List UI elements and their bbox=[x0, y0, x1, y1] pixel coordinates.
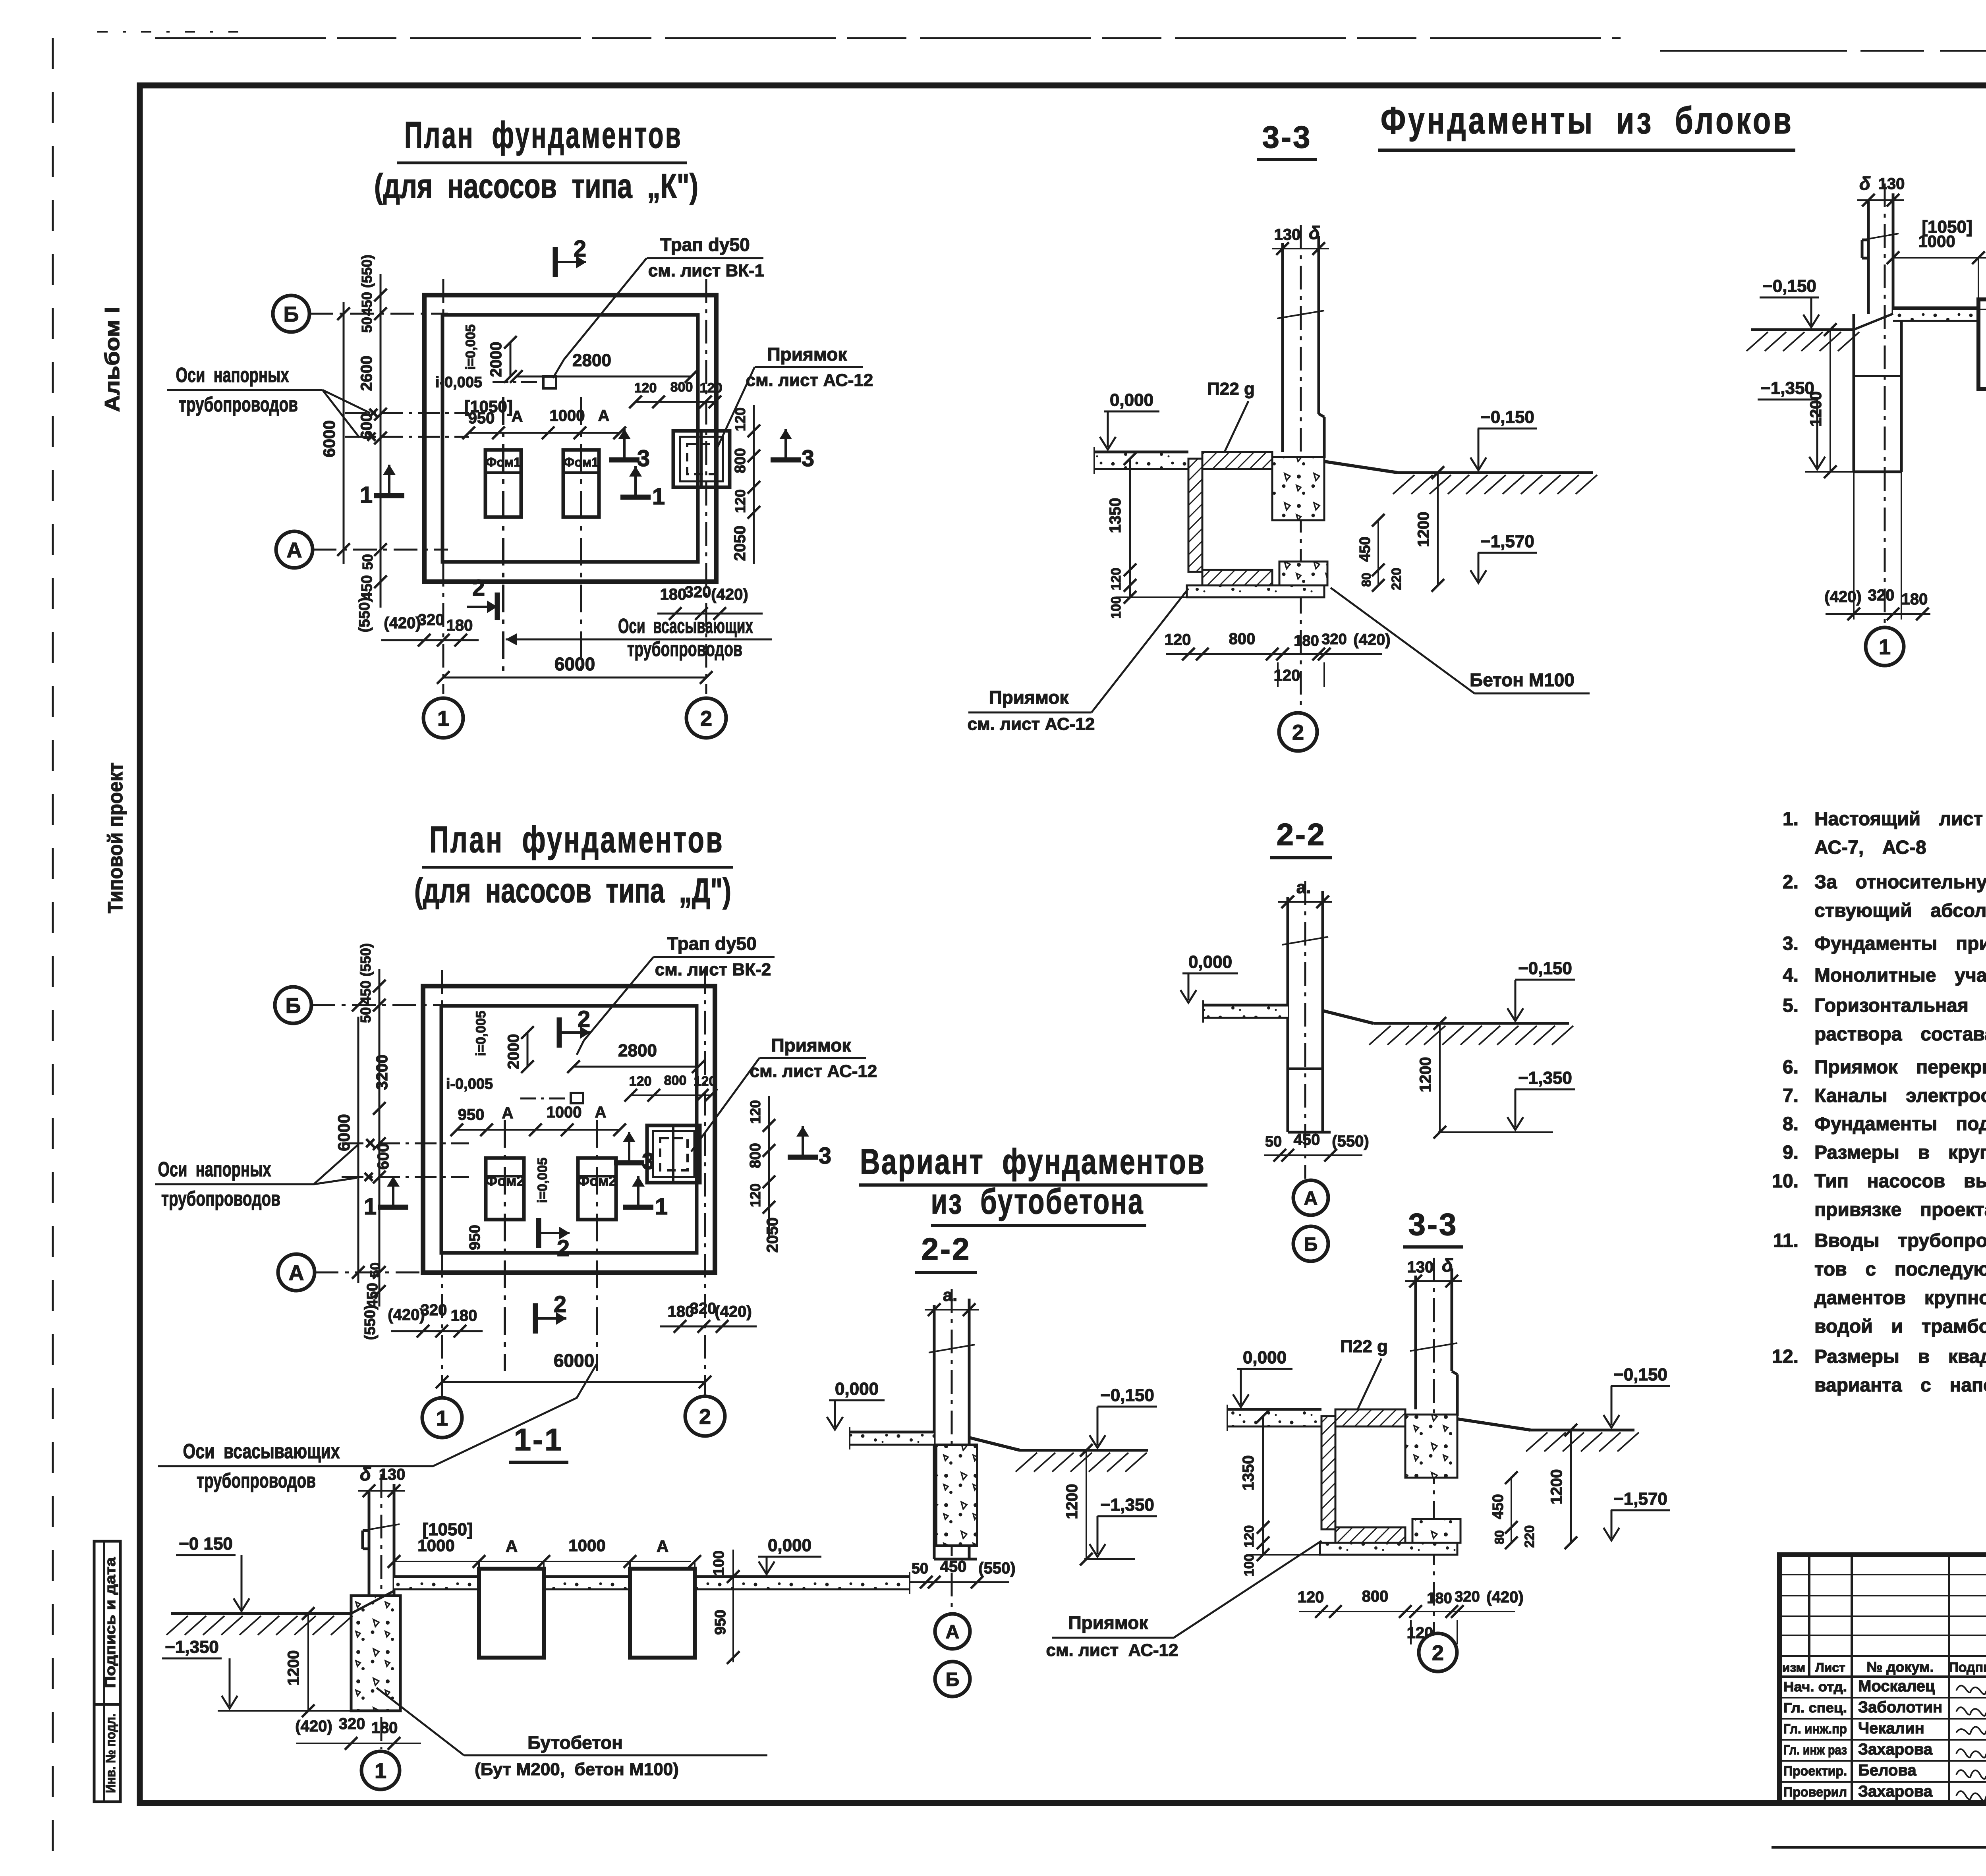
svg-text:1350: 1350 bbox=[1240, 1455, 1257, 1491]
svg-text:Вариант фундаментов: Вариант фундаментов bbox=[860, 1142, 1206, 1182]
svg-text:−1,350: −1,350 bbox=[1760, 378, 1814, 398]
svg-text:даментов крупнозернистым пес: даментов крупнозернистым песком слоями 1… bbox=[1814, 1287, 1986, 1309]
svg-text:Подпись и дата: Подпись и дата bbox=[102, 1557, 118, 1688]
svg-text:2-2: 2-2 bbox=[1277, 817, 1326, 852]
svg-text:Оси напорных: Оси напорных bbox=[158, 1158, 271, 1181]
svg-text:120: 120 bbox=[1242, 1525, 1257, 1548]
svg-text:800: 800 bbox=[747, 1143, 764, 1168]
svg-text:(420): (420) bbox=[715, 1303, 752, 1320]
svg-text:320: 320 bbox=[685, 583, 711, 601]
svg-text:А: А bbox=[502, 1104, 514, 1122]
svg-text:Белова: Белова bbox=[1858, 1762, 1916, 1779]
svg-text:100: 100 bbox=[1109, 596, 1124, 619]
svg-text:П22 g: П22 g bbox=[1207, 379, 1255, 399]
svg-text:3: 3 bbox=[819, 1143, 831, 1169]
svg-text:320: 320 bbox=[1868, 587, 1895, 604]
svg-text:Вводы трубопроводов закладыв: Вводы трубопроводов закладываются до уст… bbox=[1814, 1230, 1986, 1251]
svg-text:Приямок: Приямок bbox=[989, 687, 1069, 708]
svg-text:1-1: 1-1 bbox=[514, 1422, 564, 1457]
svg-text:δ: δ bbox=[1309, 222, 1320, 243]
svg-text:Альбом I: Альбом I bbox=[101, 307, 124, 412]
svg-text:1: 1 bbox=[375, 1759, 386, 1783]
svg-text:120: 120 bbox=[1298, 1588, 1324, 1606]
svg-text:2: 2 bbox=[574, 236, 586, 262]
svg-text:Захарова: Захарова bbox=[1858, 1741, 1933, 1758]
svg-text:6000: 6000 bbox=[554, 1350, 594, 1371]
svg-text:Настоящий лист рассматривать: Настоящий лист рассматривать совместно с… bbox=[1814, 809, 1986, 830]
svg-text:2800: 2800 bbox=[618, 1041, 657, 1060]
svg-text:2000: 2000 bbox=[487, 342, 505, 377]
svg-text:800: 800 bbox=[1229, 630, 1256, 648]
svg-text:см. лист АС-12: см. лист АС-12 bbox=[750, 1062, 877, 1081]
svg-text:2.: 2. bbox=[1783, 872, 1799, 893]
svg-text:130: 130 bbox=[1407, 1258, 1434, 1276]
svg-text:−0,150: −0,150 bbox=[1480, 407, 1534, 427]
svg-text:(420): (420) bbox=[384, 614, 421, 632]
svg-text:450 (550): 450 (550) bbox=[357, 943, 374, 1004]
svg-text:120: 120 bbox=[700, 380, 723, 396]
svg-text:(550): (550) bbox=[978, 1559, 1015, 1577]
svg-text:180: 180 bbox=[451, 1307, 477, 1324]
svg-text:450: 450 bbox=[1357, 537, 1374, 562]
svg-text:2000: 2000 bbox=[505, 1034, 522, 1069]
svg-text:трубопроводов: трубопроводов bbox=[627, 638, 742, 661]
svg-text:1000: 1000 bbox=[547, 1104, 582, 1121]
svg-text:120: 120 bbox=[747, 1183, 763, 1207]
svg-text:1: 1 bbox=[364, 1194, 377, 1220]
svg-text:изм: изм bbox=[1782, 1660, 1805, 1675]
svg-text:9.: 9. bbox=[1783, 1142, 1799, 1163]
svg-text:Инв. № подл.: Инв. № подл. bbox=[103, 1714, 118, 1793]
svg-text:Фундаменты под оборудование: Фундаменты под оборудование Фом 1, Фом 2… bbox=[1814, 1114, 1986, 1135]
svg-text:a.: a. bbox=[943, 1285, 958, 1305]
svg-text:i=0,005: i=0,005 bbox=[463, 324, 478, 370]
svg-text:см. лист АС-12: см. лист АС-12 bbox=[746, 371, 873, 390]
svg-text:А: А bbox=[506, 1537, 518, 1556]
svg-text:(420): (420) bbox=[388, 1306, 425, 1324]
svg-text:А: А bbox=[1304, 1188, 1318, 1209]
svg-text:320: 320 bbox=[1321, 631, 1347, 648]
svg-text:Бетон М100: Бетон М100 bbox=[1470, 670, 1575, 690]
svg-text:1200: 1200 bbox=[1807, 392, 1825, 427]
svg-text:2-2: 2-2 bbox=[922, 1231, 971, 1266]
svg-text:3: 3 bbox=[642, 1148, 655, 1174]
svg-text:водой и трамбованием.: водой и трамбованием. bbox=[1814, 1316, 1986, 1337]
svg-text:50: 50 bbox=[357, 1007, 374, 1023]
svg-text:Приямок перекрывается железо: Приямок перекрывается железобетонными пл… bbox=[1814, 1057, 1986, 1078]
svg-text:0,000: 0,000 bbox=[768, 1536, 811, 1555]
svg-text:950: 950 bbox=[467, 1225, 483, 1250]
svg-text:1200: 1200 bbox=[1415, 512, 1432, 547]
svg-text:0,000: 0,000 bbox=[835, 1379, 879, 1399]
svg-text:Подпись: Подпись bbox=[1949, 1660, 1986, 1675]
svg-text:тов с последующей засыпкой: тов с последующей засыпкой траншей до ур… bbox=[1814, 1259, 1986, 1280]
svg-text:1000: 1000 bbox=[550, 407, 585, 425]
svg-text:δ: δ bbox=[1859, 173, 1871, 194]
svg-text:За относительную отметку 0,: За относительную отметку 0,000 принят ур… bbox=[1814, 872, 1986, 893]
svg-text:80: 80 bbox=[1492, 1530, 1507, 1544]
svg-text:Захарова: Захарова bbox=[1858, 1783, 1933, 1800]
svg-text:−1,350: −1,350 bbox=[1518, 1068, 1572, 1088]
svg-text:Б: Б bbox=[286, 994, 301, 1017]
svg-text:Проектир.: Проектир. bbox=[1783, 1764, 1847, 1779]
svg-text:130: 130 bbox=[379, 1466, 406, 1483]
svg-text:1: 1 bbox=[436, 1406, 448, 1430]
svg-text:Б: Б bbox=[284, 302, 299, 326]
svg-text:950: 950 bbox=[468, 409, 495, 427]
svg-text:трубопроводов: трубопроводов bbox=[197, 1469, 316, 1492]
svg-text:2: 2 bbox=[1292, 720, 1304, 744]
svg-text:7.: 7. bbox=[1783, 1085, 1799, 1106]
svg-text:Приямок: Приямок bbox=[771, 1035, 852, 1056]
svg-text:Гл. спец.: Гл. спец. bbox=[1783, 1700, 1847, 1716]
svg-text:2: 2 bbox=[1432, 1641, 1444, 1665]
svg-text:0,000: 0,000 bbox=[1188, 952, 1232, 972]
svg-text:(420): (420) bbox=[1824, 588, 1861, 606]
svg-text:Оси всасывающих: Оси всасывающих bbox=[183, 1440, 340, 1463]
svg-text:Каналы электрооборудования с: Каналы электрооборудования см. лист АС-6… bbox=[1814, 1085, 1986, 1106]
svg-text:220: 220 bbox=[1522, 1525, 1537, 1548]
svg-text:800: 800 bbox=[664, 1073, 687, 1088]
svg-text:6000: 6000 bbox=[334, 1114, 353, 1151]
svg-text:−0,150: −0,150 bbox=[1762, 276, 1816, 296]
svg-text:(550): (550) bbox=[356, 597, 373, 633]
svg-text:180: 180 bbox=[371, 1719, 398, 1737]
svg-text:3: 3 bbox=[802, 446, 814, 471]
svg-text:2050: 2050 bbox=[731, 526, 749, 561]
svg-text:3.: 3. bbox=[1783, 933, 1799, 954]
svg-text:220: 220 bbox=[1389, 568, 1404, 591]
svg-text:950: 950 bbox=[458, 1106, 485, 1123]
svg-text:1200: 1200 bbox=[285, 1650, 302, 1686]
svg-text:−1,570: −1,570 bbox=[1480, 532, 1534, 551]
svg-text:1000: 1000 bbox=[417, 1536, 454, 1555]
svg-text:120: 120 bbox=[694, 1074, 717, 1089]
svg-text:800: 800 bbox=[732, 448, 749, 473]
svg-text:i-0,005: i-0,005 bbox=[435, 374, 482, 391]
svg-text:(420): (420) bbox=[1353, 631, 1390, 648]
svg-text:Б: Б bbox=[946, 1669, 960, 1690]
svg-text:Фундаменты приняты из блоко: Фундаменты приняты из блоков стен подвал… bbox=[1814, 933, 1986, 954]
svg-text:80: 80 bbox=[1359, 573, 1374, 587]
svg-text:450: 450 bbox=[359, 575, 375, 600]
svg-text:ствующий абсолютной отметке: ствующий абсолютной отметке bbox=[1814, 900, 1986, 921]
svg-text:1: 1 bbox=[655, 1194, 668, 1220]
svg-text:План фундаментов: План фундаментов bbox=[429, 818, 724, 860]
svg-text:130: 130 bbox=[1878, 175, 1905, 193]
svg-text:2: 2 bbox=[699, 1405, 711, 1428]
svg-text:320: 320 bbox=[339, 1715, 365, 1733]
svg-text:Оси всасывающих: Оси всасывающих bbox=[618, 615, 753, 638]
svg-text:3: 3 bbox=[637, 446, 650, 471]
svg-text:320: 320 bbox=[418, 611, 444, 629]
svg-text:1200: 1200 bbox=[1063, 1484, 1081, 1519]
svg-text:см. лист ВК-1: см. лист ВК-1 bbox=[648, 261, 764, 280]
svg-text:Трап dy50: Трап dy50 bbox=[660, 234, 750, 255]
svg-text:(420): (420) bbox=[1486, 1588, 1523, 1606]
svg-text:−1,570: −1,570 bbox=[1613, 1489, 1667, 1509]
svg-text:Фундаменты из блоков: Фундаменты из блоков bbox=[1381, 99, 1794, 142]
svg-text:План фундаментов: План фундаментов bbox=[404, 114, 682, 156]
svg-text:100: 100 bbox=[711, 1550, 727, 1575]
svg-text:Проверил: Проверил bbox=[1783, 1785, 1847, 1800]
svg-text:120: 120 bbox=[747, 1100, 763, 1124]
svg-text:180: 180 bbox=[446, 617, 473, 634]
svg-text:12.: 12. bbox=[1772, 1346, 1799, 1367]
svg-text:Нач. отд.: Нач. отд. bbox=[1783, 1679, 1847, 1695]
svg-text:3-3: 3-3 bbox=[1408, 1207, 1458, 1242]
svg-text:6.: 6. bbox=[1783, 1057, 1799, 1078]
svg-text:1.: 1. bbox=[1783, 809, 1799, 830]
svg-text:Лист: Лист bbox=[1815, 1660, 1845, 1675]
svg-text:2: 2 bbox=[578, 1006, 590, 1032]
svg-text:(550): (550) bbox=[362, 1305, 379, 1340]
svg-text:1200: 1200 bbox=[1548, 1469, 1565, 1505]
svg-text:Гл. инж.пр: Гл. инж.пр bbox=[1783, 1722, 1847, 1737]
svg-text:А: А bbox=[946, 1621, 960, 1642]
svg-text:6000: 6000 bbox=[554, 654, 595, 674]
svg-text:3200: 3200 bbox=[373, 1055, 391, 1090]
svg-text:2: 2 bbox=[557, 1235, 570, 1261]
svg-text:0,000: 0,000 bbox=[1243, 1348, 1287, 1367]
svg-text:А: А bbox=[512, 408, 523, 425]
svg-text:a.: a. bbox=[1296, 878, 1311, 897]
svg-text:№ докум.: № докум. bbox=[1866, 1659, 1934, 1675]
svg-text:1: 1 bbox=[437, 706, 449, 730]
svg-text:600: 600 bbox=[375, 1143, 392, 1170]
svg-text:i=0,005: i=0,005 bbox=[535, 1158, 550, 1203]
svg-text:450: 450 bbox=[364, 1283, 381, 1308]
svg-text:320: 320 bbox=[1455, 1588, 1480, 1605]
svg-text:(для насосов типа „К"): (для насосов типа „К") bbox=[374, 167, 698, 205]
svg-text:800: 800 bbox=[1362, 1588, 1389, 1605]
svg-text:Размеры в круглых скобках: Размеры в круглых скобках для температур… bbox=[1814, 1142, 1986, 1163]
svg-text:−0,150: −0,150 bbox=[1100, 1386, 1154, 1405]
svg-text:δ: δ bbox=[1442, 1255, 1453, 1276]
svg-text:6000: 6000 bbox=[320, 420, 338, 457]
svg-text:i=0,005: i=0,005 bbox=[473, 1011, 489, 1056]
svg-text:50: 50 bbox=[912, 1560, 928, 1577]
svg-text:Тип насосов выбирается по: Тип насосов выбирается по технологическо… bbox=[1814, 1171, 1986, 1192]
svg-text:1350: 1350 bbox=[1107, 498, 1124, 533]
svg-text:А: А bbox=[289, 1261, 304, 1285]
svg-text:800: 800 bbox=[670, 380, 693, 395]
svg-text:2600: 2600 bbox=[358, 356, 375, 391]
svg-text:Монолитные участки выполняют: Монолитные участки выполняются из бетона… bbox=[1814, 965, 1986, 986]
svg-text:2: 2 bbox=[554, 1291, 566, 1317]
svg-text:180: 180 bbox=[1294, 633, 1319, 649]
svg-text:Типовой проект: Типовой проект bbox=[104, 762, 127, 913]
svg-text:180: 180 bbox=[660, 586, 687, 603]
svg-text:450: 450 bbox=[1490, 1494, 1507, 1519]
svg-text:600: 600 bbox=[358, 413, 375, 440]
svg-text:А: А bbox=[598, 407, 610, 425]
svg-text:×: × bbox=[363, 1166, 374, 1187]
svg-text:см. лист АС-12: см. лист АС-12 bbox=[968, 714, 1095, 734]
svg-text:320: 320 bbox=[690, 1300, 717, 1317]
svg-text:−0 150: −0 150 bbox=[179, 1534, 233, 1554]
svg-text:Размеры в квадратных скобка: Размеры в квадратных скобках относятся к… bbox=[1814, 1346, 1986, 1367]
svg-text:(420): (420) bbox=[711, 586, 748, 603]
svg-text:Москалец: Москалец bbox=[1858, 1677, 1935, 1695]
svg-text:1200: 1200 bbox=[1417, 1057, 1434, 1092]
svg-text:1: 1 bbox=[360, 482, 373, 508]
svg-text:2800: 2800 bbox=[572, 351, 611, 370]
svg-text:Заболотин: Заболотин bbox=[1858, 1698, 1942, 1716]
svg-text:50: 50 bbox=[368, 1262, 383, 1278]
svg-text:(для насосов типа „Д"): (для насосов типа „Д") bbox=[414, 872, 731, 910]
svg-text:950: 950 bbox=[712, 1610, 729, 1635]
svg-text:см. лист АС-12: см. лист АС-12 bbox=[1046, 1641, 1178, 1660]
svg-text:δ: δ bbox=[360, 1464, 371, 1484]
svg-text:120: 120 bbox=[629, 1074, 652, 1089]
svg-text:1000: 1000 bbox=[568, 1536, 605, 1555]
svg-text:2: 2 bbox=[472, 575, 485, 601]
svg-text:2050: 2050 bbox=[764, 1218, 781, 1253]
svg-text:из бутобетона: из бутобетона bbox=[931, 1182, 1144, 1222]
svg-text:−0,150: −0,150 bbox=[1518, 959, 1572, 978]
svg-text:120: 120 bbox=[1109, 568, 1124, 591]
svg-text:450: 450 bbox=[1294, 1131, 1320, 1148]
svg-text:1000: 1000 bbox=[1918, 232, 1955, 251]
svg-text:4.: 4. bbox=[1783, 965, 1799, 986]
svg-text:−1,350: −1,350 bbox=[165, 1637, 219, 1657]
svg-text:Приямок: Приямок bbox=[1068, 1612, 1149, 1633]
svg-text:50: 50 bbox=[359, 554, 376, 570]
svg-text:450 (550): 450 (550) bbox=[359, 255, 375, 316]
svg-text:50: 50 bbox=[359, 317, 375, 333]
svg-text:раствора состава 1:2 толщин: раствора состава 1:2 толщиной 20 мм. bbox=[1814, 1024, 1986, 1045]
svg-text:(Бут М200, бетон М100): (Бут М200, бетон М100) bbox=[475, 1760, 679, 1779]
svg-text:11.: 11. bbox=[1773, 1230, 1799, 1251]
svg-text:трубопроводов: трубопроводов bbox=[161, 1187, 280, 1210]
svg-text:0,000: 0,000 bbox=[1110, 390, 1153, 410]
svg-text:100: 100 bbox=[1242, 1554, 1257, 1577]
svg-text:120: 120 bbox=[634, 380, 657, 396]
svg-text:трубопроводов: трубопроводов bbox=[179, 393, 298, 416]
svg-text:Б: Б bbox=[1304, 1234, 1318, 1255]
svg-text:5.: 5. bbox=[1783, 995, 1799, 1016]
svg-text:Горизонтальная гидроизоляция: Горизонтальная гидроизоляция стен выполн… bbox=[1814, 995, 1986, 1016]
svg-text:Трап dy50: Трап dy50 bbox=[667, 933, 756, 954]
svg-text:(420): (420) bbox=[295, 1718, 332, 1735]
svg-text:1: 1 bbox=[652, 484, 665, 510]
svg-text:А: А bbox=[287, 538, 302, 562]
svg-text:см. лист ВК-2: см. лист ВК-2 bbox=[655, 960, 771, 979]
svg-text:130: 130 bbox=[1274, 226, 1301, 243]
svg-text:3-3: 3-3 bbox=[1262, 120, 1312, 154]
svg-text:Чекалин: Чекалин bbox=[1858, 1720, 1924, 1737]
svg-text:привязке проекта.: привязке проекта. bbox=[1814, 1199, 1986, 1220]
svg-text:А: А bbox=[595, 1104, 607, 1121]
svg-text:варианта с напорными линиям: варианта с напорными линиями диаметром д… bbox=[1814, 1375, 1986, 1396]
svg-text:10.: 10. bbox=[1772, 1171, 1799, 1192]
svg-text:Оси напорных: Оси напорных bbox=[176, 364, 289, 387]
svg-text:П22 g: П22 g bbox=[1340, 1337, 1388, 1356]
svg-text:−0,150: −0,150 bbox=[1613, 1365, 1667, 1384]
svg-text:А: А bbox=[657, 1537, 668, 1556]
svg-text:Приямок: Приямок bbox=[767, 344, 848, 365]
svg-text:180: 180 bbox=[1427, 1590, 1452, 1607]
svg-text:−1,350: −1,350 bbox=[1100, 1495, 1154, 1515]
svg-text:(550): (550) bbox=[1332, 1133, 1369, 1150]
svg-text:8.: 8. bbox=[1783, 1114, 1799, 1135]
svg-text:2: 2 bbox=[700, 706, 712, 730]
svg-text:320: 320 bbox=[421, 1301, 447, 1319]
svg-text:180: 180 bbox=[1901, 591, 1928, 608]
svg-text:1: 1 bbox=[1879, 635, 1891, 659]
svg-text:i-0,005: i-0,005 bbox=[446, 1076, 493, 1092]
svg-text:АС-7, АС-8: АС-7, АС-8 bbox=[1814, 837, 1926, 858]
svg-text:Гл. инж раз: Гл. инж раз bbox=[1783, 1743, 1847, 1758]
svg-text:120: 120 bbox=[732, 489, 748, 513]
svg-text:Бутобетон: Бутобетон bbox=[527, 1732, 623, 1753]
svg-text:50: 50 bbox=[1265, 1133, 1282, 1150]
svg-text:120: 120 bbox=[1165, 631, 1191, 648]
svg-text:450: 450 bbox=[940, 1558, 967, 1575]
